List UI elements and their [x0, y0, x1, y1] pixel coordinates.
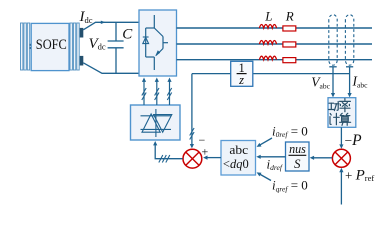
measurement oval V — [329, 15, 337, 66]
resistor Rc — [283, 58, 296, 63]
wire P_ref in — [340, 171, 342, 205]
SOFC terminal tab bottom — [80, 56, 84, 66]
phase line b — [177, 43, 373, 45]
wire Vabc drop — [332, 67, 334, 94]
svg-text:z: z — [238, 73, 244, 87]
hanzi suan — [340, 113, 351, 125]
inverter box — [139, 10, 177, 76]
tap bar V — [329, 66, 336, 68]
svg-text:C: C — [122, 26, 133, 42]
PWM symbol — [141, 109, 172, 137]
wire 1/z feedback vertical — [191, 74, 193, 145]
measurement oval I — [345, 15, 353, 65]
wire i_0ref — [260, 138, 273, 145]
inductor Lc — [259, 56, 276, 60]
svg-text:nus: nus — [289, 142, 306, 156]
block PI nus/S — [286, 142, 310, 171]
summing junction right — [332, 149, 350, 167]
svg-text:−P: −P — [345, 132, 363, 149]
SOFC stack left bars — [21, 23, 30, 70]
slash marks modulation — [159, 155, 170, 163]
arrow I_dc — [101, 21, 106, 24]
resistor Rb — [283, 42, 296, 47]
svg-text:R: R — [285, 9, 294, 24]
inductor La — [259, 25, 276, 29]
wire sum to PWM — [155, 145, 182, 159]
svg-text:+ Pref: + Pref — [345, 167, 374, 183]
wire sum to PI — [313, 157, 332, 159]
resistor Ra — [283, 26, 296, 31]
wire dc- — [83, 63, 139, 74]
IGBT symbol — [146, 15, 168, 70]
SOFC stack dots — [30, 44, 32, 49]
SOFC stack right bars — [70, 23, 79, 70]
inductor Lb — [259, 41, 276, 45]
diode D1 — [143, 37, 149, 44]
svg-text:<dq0: <dq0 — [223, 156, 249, 171]
svg-text:Vabc: Vabc — [311, 75, 330, 91]
svg-text:SOFC: SOFC — [36, 37, 67, 53]
phase line c — [177, 59, 373, 61]
wire P out — [340, 127, 342, 145]
power calc box — [328, 98, 356, 128]
wire dq0 out — [207, 157, 222, 159]
summing junction left — [183, 149, 202, 168]
gate line 2 — [156, 81, 158, 105]
gate line 1 — [143, 81, 145, 105]
capacitor C — [108, 22, 124, 73]
IGBT emitter arrow — [155, 50, 160, 56]
PWM box — [131, 105, 181, 140]
svg-text:Iabc: Iabc — [352, 74, 369, 90]
slash marks feedback — [190, 128, 194, 140]
block 1/z — [231, 61, 253, 86]
svg-text:Idc: Idc — [79, 9, 93, 25]
SOFC box U1 — [31, 23, 69, 70]
SOFC terminal tab top — [80, 28, 84, 38]
hanzi gong — [329, 102, 339, 111]
svg-text:S: S — [294, 156, 301, 171]
wire i_dref — [260, 156, 286, 158]
gate line 3 — [169, 81, 171, 105]
wire Iabc drop — [349, 67, 351, 94]
wire i_qref — [260, 174, 272, 181]
svg-text:Vdc: Vdc — [89, 36, 106, 52]
svg-text:−: − — [199, 133, 206, 147]
feedback bus — [192, 73, 231, 75]
block abc/dq0 — [221, 141, 256, 176]
svg-text:L: L — [264, 9, 272, 24]
wire dc+ — [83, 22, 139, 30]
phase line a — [177, 27, 373, 29]
svg-text:i0ref = 0: i0ref = 0 — [272, 123, 308, 139]
svg-text:iqref = 0: iqref = 0 — [272, 178, 308, 194]
hanzi lv — [340, 99, 351, 112]
svg-text:idref: idref — [267, 156, 283, 172]
tap bar I — [346, 66, 353, 68]
hanzi ji — [330, 113, 339, 124]
